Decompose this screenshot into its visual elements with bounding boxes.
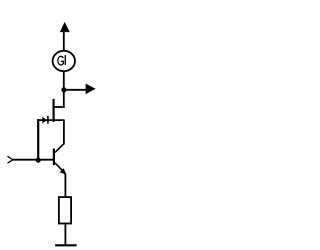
transistor T2 base bar (53, 149, 55, 166)
wire (37, 119, 39, 160)
transistor T1 base bar (52, 99, 54, 122)
resistor R1 (59, 197, 71, 223)
wire (13, 159, 53, 161)
transistor T2 emitter arrow (60, 168, 67, 175)
wire (64, 89, 86, 91)
wire (63, 32, 65, 51)
transistor T1 emitter arrow (42, 117, 47, 124)
transistor T2 emitter lead (55, 163, 66, 174)
transistor T1 collector lead (53, 106, 65, 108)
output arrow (86, 84, 96, 95)
node junction (36, 158, 41, 163)
supply arrow (60, 22, 70, 32)
node junction (61, 87, 66, 92)
transistor T1 emitter bar (47, 116, 49, 124)
lamp Gl (53, 51, 75, 71)
label Gl (58, 55, 66, 65)
transistor T2 collector lead (55, 144, 64, 153)
wire (64, 174, 66, 198)
wire (64, 224, 66, 245)
wire (63, 121, 65, 145)
transistor T1 emitter lead (37, 119, 64, 121)
input terminal (8, 156, 13, 163)
ground (55, 244, 77, 246)
wire (63, 90, 65, 108)
wire (63, 72, 65, 90)
